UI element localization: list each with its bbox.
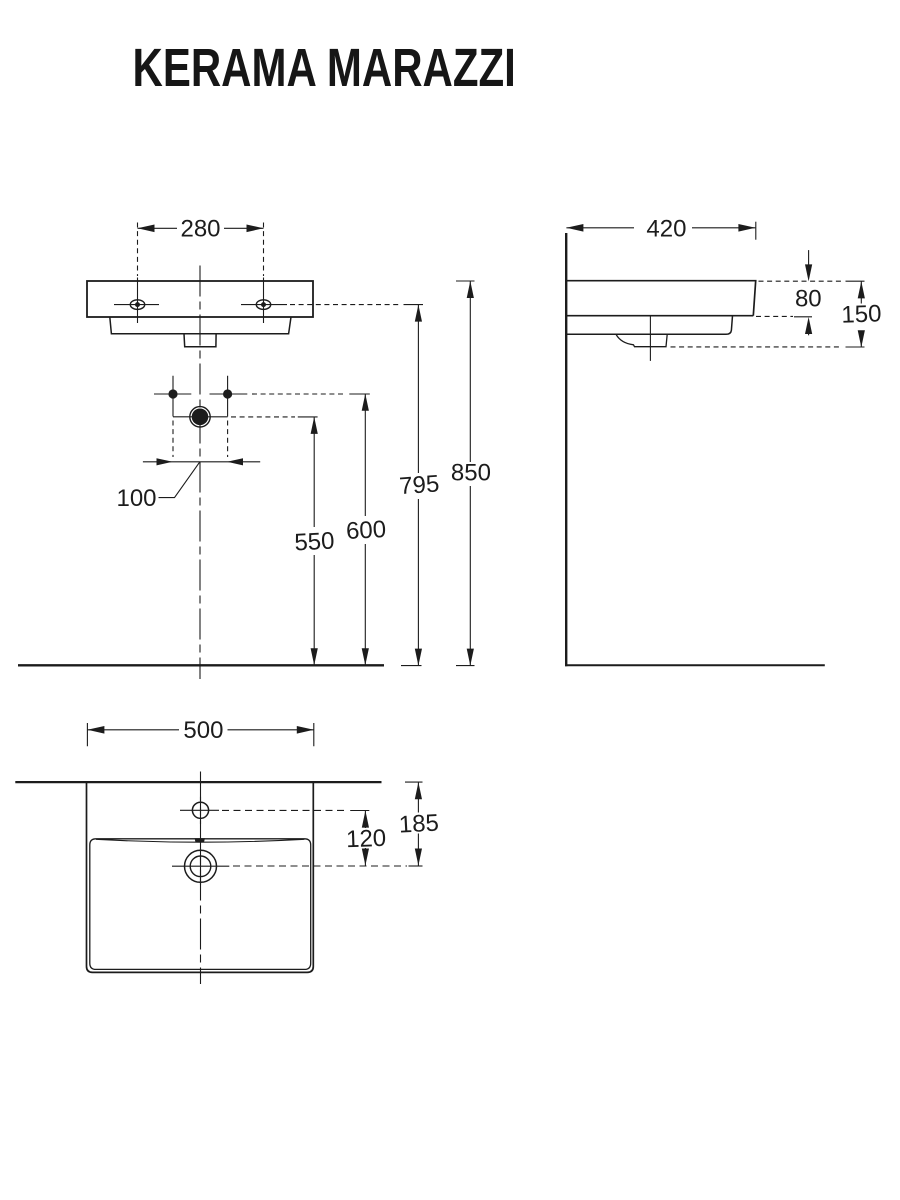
- floor line front view: [18, 664, 384, 666]
- dimension 550 line: [313, 417, 315, 665]
- svg-text:80: 80: [795, 285, 822, 312]
- left mounting hole: [114, 278, 159, 324]
- svg-text:500: 500: [183, 717, 223, 744]
- svg-text:600: 600: [345, 516, 386, 545]
- svg-text:280: 280: [180, 215, 220, 242]
- drain cross: [172, 849, 229, 885]
- dimension 600 line: [364, 394, 366, 666]
- drain pipe circle: [190, 407, 210, 427]
- front basin main rectangle: [87, 281, 313, 317]
- solid tick at 80 bottom: [794, 316, 812, 318]
- svg-text:100: 100: [116, 485, 156, 512]
- dashed top edge extension: [759, 280, 843, 282]
- side drain bump: [616, 334, 667, 346]
- front vertical centerline: [199, 266, 201, 680]
- dashed line dots row to dim 600: [252, 393, 346, 395]
- bracket line under drain: [173, 416, 228, 418]
- svg-text:550: 550: [294, 527, 335, 556]
- plan centerline: [200, 772, 202, 985]
- dimension 185 line: [417, 782, 419, 865]
- svg-text:420: 420: [646, 215, 686, 242]
- dimension 100 arrows: [157, 458, 244, 465]
- plan outer outline: [87, 782, 314, 972]
- dimension 795 floor tick: [401, 665, 422, 667]
- dimension 100 leader: [159, 462, 200, 497]
- dashed line drain to dim 550: [231, 416, 295, 418]
- drain inner circle: [190, 856, 211, 877]
- faucet hole cross: [180, 797, 219, 824]
- tick at dim 120 top: [350, 810, 369, 812]
- side rim outline: [566, 316, 733, 335]
- svg-text:795: 795: [398, 470, 440, 500]
- extension line right hole up to dim 280: [263, 223, 265, 277]
- side floor line: [565, 664, 825, 666]
- side faucet centerline: [649, 316, 651, 361]
- dimension 280 line: [138, 227, 264, 229]
- side slab outline: [566, 281, 756, 316]
- dashed drain to dim 185: [233, 865, 407, 867]
- dashed extension below left dot: [172, 421, 174, 458]
- plan wall line: [15, 781, 381, 783]
- front drain spigot box: [184, 334, 216, 347]
- dimension 100 line: [143, 461, 260, 463]
- svg-text:120: 120: [346, 825, 387, 853]
- dimension 850 ticks: [456, 281, 475, 666]
- plan inner back edge sliver: [96, 839, 304, 842]
- svg-text:150: 150: [841, 300, 882, 328]
- plan inner outline: [90, 839, 311, 970]
- right mounting hole: [241, 278, 287, 324]
- side wall line: [565, 233, 567, 666]
- dimension 500 ticks: [87, 723, 313, 746]
- dimension 80 arrows: [808, 250, 810, 267]
- dashed slab bottom extension: [756, 315, 793, 317]
- svg-text:185: 185: [398, 810, 439, 839]
- dashed extension below right dot: [227, 421, 229, 458]
- dimension 150 line: [860, 281, 862, 347]
- faucet hole: [192, 802, 208, 818]
- dimension 500 line: [87, 729, 313, 731]
- dimension 850 line: [469, 281, 471, 666]
- drain outer circle: [185, 850, 217, 882]
- svg-text:KERAMA MARAZZI: KERAMA MARAZZI: [133, 38, 516, 98]
- dimension 150 ticks: [846, 281, 865, 347]
- dimension 420 right tick: [755, 222, 757, 240]
- svg-text:850: 850: [451, 459, 491, 486]
- dimension 795 line: [417, 305, 419, 666]
- dimension 280 arrows: [138, 225, 264, 233]
- plan center tick wedge: [195, 838, 205, 842]
- fixing dot right: [223, 389, 232, 398]
- dashed bump bottom extension: [671, 346, 843, 348]
- front basin lower rim: [110, 317, 291, 334]
- dashed line right hole to dim 795: [290, 304, 400, 306]
- dimension 120 line: [364, 811, 366, 866]
- fixing dot left: [168, 389, 177, 398]
- extension line left hole up to dim 280: [137, 223, 139, 277]
- dashed faucet to dim 120: [222, 809, 348, 811]
- dimension 420 line: [566, 227, 755, 229]
- dimension 185 top tick: [405, 781, 423, 783]
- fixing dot crosses: [154, 376, 247, 417]
